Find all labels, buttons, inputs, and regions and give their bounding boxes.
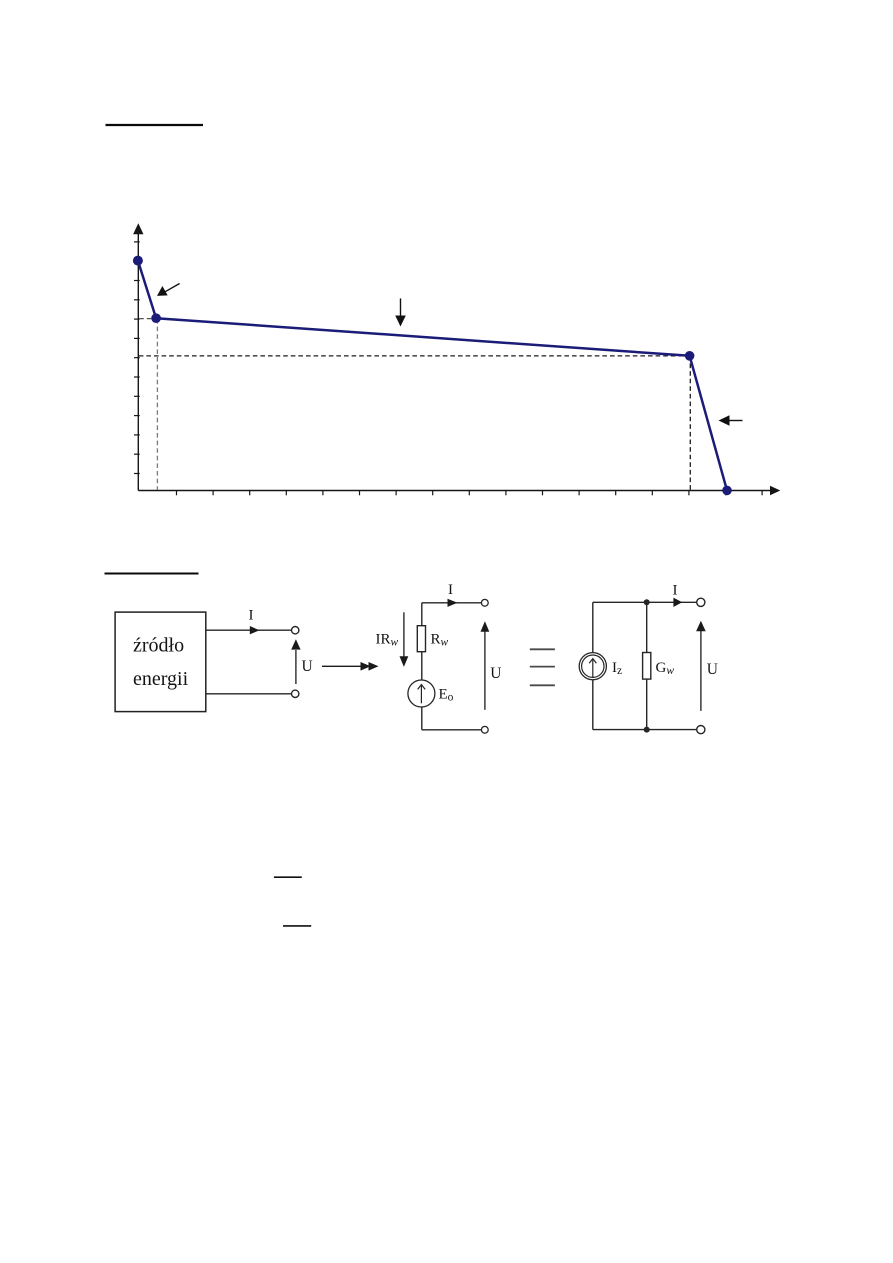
chart x-axis ticks bbox=[177, 491, 763, 496]
svg-text:Gw: Gw bbox=[656, 660, 675, 677]
label I (source box) bbox=[249, 608, 254, 624]
equivalence sign (triple bar) bbox=[530, 649, 555, 685]
conductance Gw bbox=[643, 653, 651, 680]
terminal (Norton bottom) bbox=[697, 726, 705, 734]
junction dot (bottom) bbox=[644, 727, 650, 733]
current source Iz bbox=[579, 653, 606, 680]
voltage arrow U (source box) bbox=[291, 639, 300, 684]
wire: Norton left upper bbox=[592, 602, 594, 652]
current arrowhead I (Thevenin) bbox=[448, 599, 458, 607]
label U (Thevenin) bbox=[490, 665, 501, 682]
chart x-axis bbox=[138, 486, 780, 496]
terminal (box top) bbox=[292, 627, 299, 634]
label I (Norton) bbox=[673, 583, 678, 599]
wire: Gw branch upper bbox=[646, 602, 648, 652]
voltage arrow U (Norton) bbox=[696, 621, 706, 711]
resistor Rw bbox=[417, 626, 425, 652]
svg-text:U: U bbox=[707, 661, 718, 678]
voltage arrow U (Thevenin) bbox=[481, 621, 490, 710]
Thevenin: bottom wire bbox=[422, 729, 482, 731]
annotation arrow (middle, points down) bbox=[395, 298, 406, 326]
voltage-drop arrow IRw bbox=[400, 612, 409, 667]
svg-text:Rw: Rw bbox=[431, 632, 449, 649]
current arrowhead I on top wire bbox=[250, 626, 260, 634]
svg-text:I: I bbox=[249, 608, 254, 624]
heading underline (second) bbox=[105, 573, 199, 575]
data point 3 bbox=[685, 351, 695, 361]
label IRw bbox=[376, 632, 399, 649]
label I (Thevenin) bbox=[448, 582, 453, 598]
data point 1 bbox=[133, 256, 143, 266]
label U (source box) bbox=[302, 658, 313, 675]
chart y-axis ticks bbox=[134, 242, 140, 474]
svg-text:I: I bbox=[448, 582, 453, 598]
svg-text:energii: energii bbox=[133, 668, 189, 690]
svg-text:IRw: IRw bbox=[376, 632, 399, 649]
wire: box top output bbox=[206, 629, 292, 631]
terminal (Thevenin bottom) bbox=[481, 726, 488, 733]
label U (Norton) bbox=[707, 661, 718, 678]
wire: box bottom output bbox=[206, 693, 292, 695]
annotation arrow (upper-left, points down-left) bbox=[157, 284, 180, 296]
annotation arrow (right, points left) bbox=[719, 415, 743, 426]
heading underline (top) bbox=[106, 124, 204, 126]
wire: Norton left lower bbox=[592, 680, 594, 730]
Norton: bottom wire bbox=[593, 729, 697, 731]
wire: below Eo bbox=[421, 707, 423, 730]
wire: between Rw and Eo bbox=[421, 652, 423, 681]
Thevenin: top wire bbox=[422, 602, 482, 604]
label Rw bbox=[431, 632, 449, 649]
svg-text:I: I bbox=[673, 583, 678, 599]
dashed guide vertical at second point bbox=[156, 319, 158, 490]
svg-text:U: U bbox=[490, 665, 501, 682]
junction dot (top) bbox=[644, 599, 650, 605]
dashed guide stub from y-axis to second point bbox=[139, 318, 151, 320]
characteristic polyline bbox=[138, 261, 727, 491]
current arrowhead I (Norton) bbox=[673, 598, 682, 607]
terminal (Thevenin top) bbox=[481, 599, 488, 606]
fraction bar 2 bbox=[283, 925, 311, 927]
dashed guide vertical at third point bbox=[689, 356, 691, 490]
dashed guide horizontal at third point level bbox=[139, 355, 690, 357]
terminal (box bottom) bbox=[292, 690, 299, 697]
svg-text:Eo: Eo bbox=[439, 687, 454, 704]
fraction bar 1 bbox=[274, 876, 302, 878]
wire: Thevenin left upper segment bbox=[421, 603, 423, 626]
Norton: top wire bbox=[593, 601, 697, 603]
label Eo bbox=[439, 687, 454, 704]
chart y-axis bbox=[133, 223, 143, 490]
label Iz bbox=[612, 660, 622, 677]
svg-text:Iz: Iz bbox=[612, 660, 622, 677]
source box "źródło energii" bbox=[115, 612, 206, 712]
label Gw bbox=[656, 660, 675, 677]
equivalence arrow (double head) bbox=[322, 662, 379, 671]
terminal (Norton top) bbox=[697, 598, 705, 606]
voltage source Eo bbox=[408, 680, 435, 707]
svg-text:źródło: źródło bbox=[133, 635, 184, 657]
data point 4 bbox=[722, 486, 732, 496]
svg-text:U: U bbox=[302, 658, 313, 675]
data point 2 bbox=[151, 313, 161, 323]
wire: Gw branch lower bbox=[646, 679, 648, 730]
